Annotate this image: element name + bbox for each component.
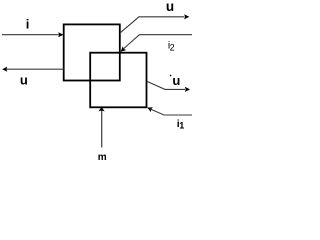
arrowhead u left: [2, 67, 7, 72]
svg-text:u: u: [166, 0, 174, 14]
arrowhead m: [99, 107, 105, 112]
svg-text:m: m: [98, 152, 107, 163]
wire input i1: [151, 109, 192, 115]
arrowhead u top-right: [184, 14, 189, 19]
svg-text:1: 1: [179, 121, 184, 131]
wire output u top-right: [121, 17, 185, 33]
arrowhead 'u: [185, 87, 190, 92]
block box 1 (upper-left square): [64, 24, 120, 80]
svg-text:u: u: [172, 73, 180, 88]
wire output 'u right: [147, 81, 185, 89]
wire input i: [2, 34, 60, 36]
label 'u prime tick: [169, 75, 172, 76]
wire input m: [101, 111, 103, 148]
wire output u left: [6, 68, 64, 70]
block box 2 (lower-right square): [90, 53, 146, 108]
svg-text:2: 2: [170, 42, 175, 52]
svg-text:u: u: [20, 72, 28, 87]
wire input i2: [124, 35, 192, 49]
arrowhead i1: [147, 107, 153, 112]
svg-text:i: i: [26, 17, 30, 32]
arrowhead i2: [121, 46, 127, 51]
arrowhead i: [58, 32, 63, 37]
